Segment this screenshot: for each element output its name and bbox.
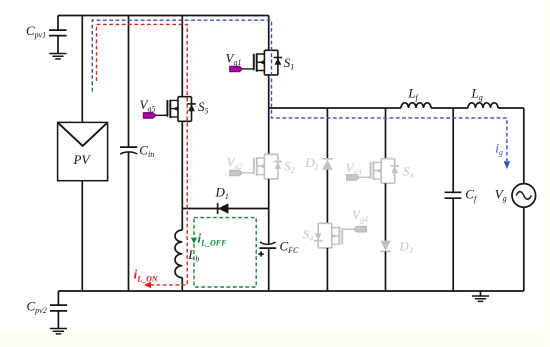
plus sign CFC [259,251,264,256]
wire S5 to D1 node [181,121,183,230]
wire D3 to bottom rail [385,251,387,291]
transistor S2 (inactive) [230,154,283,179]
svg-text:S3: S3 [403,164,414,181]
svg-text:ig: ig [495,140,503,157]
source Vg [512,184,536,208]
wire green loop (iL,OFF path) [194,218,256,287]
svg-text:S5: S5 [198,99,209,116]
wire leg3 top [385,108,387,159]
wire top DC rail [58,15,269,17]
page tint bottom [0,334,550,347]
node green arrowhead [191,238,197,244]
svg-text:D1: D1 [215,185,229,202]
wire Lb to bottom rail [181,278,183,291]
wire S4 to bottom rail [326,248,328,291]
svg-text:Cpv2: Cpv2 [27,299,47,316]
ground (bottom left) [50,329,67,334]
svg-text:Lg: Lg [471,86,483,103]
page tint top [0,0,550,7]
wire Vg leg top [523,108,525,184]
svg-text:Lf: Lf [407,86,419,103]
svg-text:Vg4: Vg4 [352,207,368,224]
diode D3 (inactive) [380,241,391,252]
wire Cin leg top [128,16,130,148]
capacitor Cpv1 [49,16,67,54]
node blue arrowhead ig [504,161,511,169]
inductor Lb [175,230,182,278]
svg-text:Vg: Vg [495,187,507,204]
wire S3 to D3 [385,183,387,241]
wire Cf leg bottom [452,198,454,291]
wire AC mid rail segments [269,107,524,109]
capacitor Cf [445,192,462,198]
ground (top left) [49,54,66,59]
wire CFC to bottom rail [268,248,270,291]
wire leg2 top [326,108,328,159]
capacitor Cpv2 [50,291,67,328]
PV panel [58,122,108,180]
wire Vg to bottom rail [523,207,525,291]
inductor Lg [468,103,498,108]
wire S2 to CFC [268,179,270,244]
svg-text:Vg2: Vg2 [227,155,243,172]
transistor S5 [143,97,196,122]
wire Cin leg bottom [128,152,130,291]
capacitor CFC [259,242,276,248]
svg-text:S1: S1 [284,55,295,72]
svg-text:iL_ON: iL_ON [134,267,159,284]
wire bottom rail [58,290,523,292]
svg-text:Cin: Cin [139,143,154,160]
svg-text:Vg3: Vg3 [346,160,362,177]
node red arrowhead [144,282,151,288]
svg-text:PV: PV [73,152,92,167]
wire S1 leg top [268,16,270,51]
transistor S1 [230,50,283,75]
svg-text:S4: S4 [303,227,314,244]
transistor S4 (inactive, rotated) [314,223,367,248]
svg-text:CFC: CFC [280,238,300,255]
svg-text:iL_OFF: iL_OFF [198,231,228,248]
svg-text:Vg1: Vg1 [226,50,242,67]
svg-text:S2: S2 [284,158,295,175]
svg-text:D2: D2 [304,155,318,172]
svg-text:Cf: Cf [465,187,478,204]
wire S5 leg top [181,16,183,97]
svg-text:Cpv1: Cpv1 [26,23,46,40]
wire D2 to S4 [326,170,328,224]
wire red loop (iL,ON path) [97,24,188,285]
wire S1 source to AC rail [268,75,270,154]
diode D2 (inactive) [322,159,333,170]
wire Cf leg top [452,108,454,192]
wire PV leg top [81,16,83,123]
svg-text:Vg5: Vg5 [140,97,156,114]
svg-text:Lb: Lb [187,247,199,264]
page tint right [543,0,550,347]
diode D1 [218,203,229,214]
wire PV leg bottom [81,181,83,291]
ground (bottom right) [480,291,482,296]
transistor S3 (inactive) [347,159,400,184]
wire blue loop (grid current path) [92,20,507,161]
inductor Lf [401,103,431,108]
capacitor Cin [120,147,137,154]
svg-text:D3: D3 [398,239,412,256]
wire D1 horizontal [182,208,268,210]
